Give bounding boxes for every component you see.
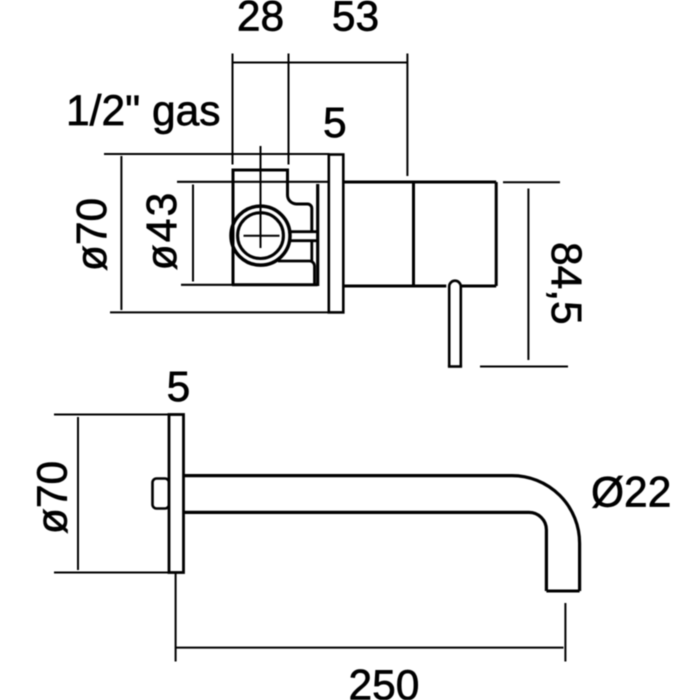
svg-text:ø70: ø70 [69,198,116,271]
svg-text:28: 28 [237,0,284,41]
svg-text:84,5: 84,5 [542,242,589,325]
svg-text:Ø22: Ø22 [591,470,671,517]
svg-text:ø43: ø43 [139,191,186,271]
svg-text:5: 5 [167,364,191,411]
svg-text:250: 250 [349,663,420,700]
svg-text:1/2" gas: 1/2" gas [66,88,221,135]
svg-text:5: 5 [323,100,347,147]
svg-text:53: 53 [332,0,379,41]
svg-text:ø70: ø70 [30,461,77,534]
